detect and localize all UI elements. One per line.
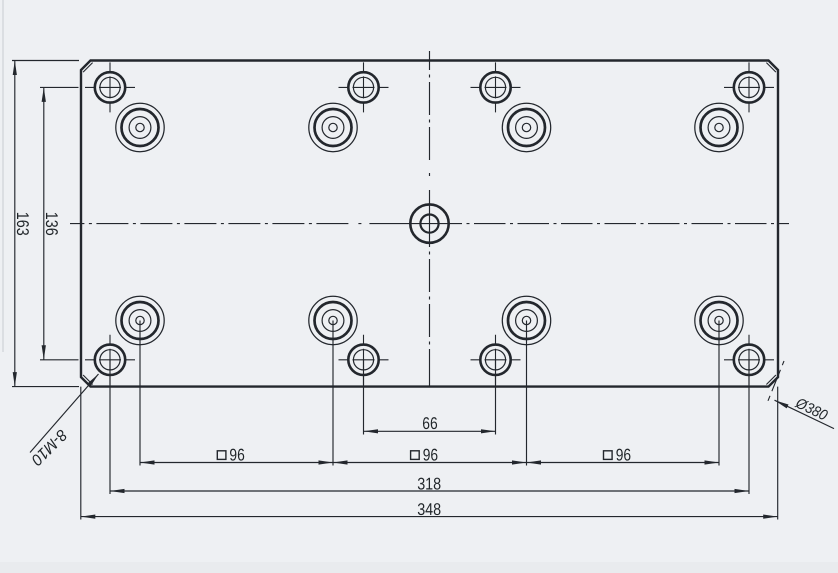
svg-text:163: 163 — [13, 212, 32, 236]
svg-text:348: 348 — [417, 500, 441, 519]
svg-text:96: 96 — [423, 445, 438, 464]
svg-text:136: 136 — [42, 212, 61, 236]
svg-text:96: 96 — [616, 445, 631, 464]
svg-text:66: 66 — [422, 414, 437, 433]
svg-text:96: 96 — [229, 445, 244, 464]
svg-text:318: 318 — [417, 474, 441, 493]
